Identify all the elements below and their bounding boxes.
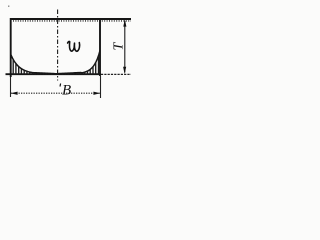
T dimension line [124, 21, 126, 73]
bottom extension to T dimension (dashed) [101, 73, 131, 75]
right extension line (B dim) [100, 76, 102, 98]
left wall [10, 18, 12, 77]
curved channel bed [11, 51, 100, 74]
scan speck top-left [8, 6, 9, 7]
bottom datum line [6, 73, 102, 75]
vertical centerline (dash-dot) [57, 10, 59, 81]
water surface tick row (dotted) [13, 20, 131, 22]
background [0, 0, 140, 110]
left extension line (B dim) [10, 77, 12, 97]
omega label (flow area) [68, 41, 80, 51]
B dimension right arrow [93, 92, 100, 95]
B dimension line (dotted) [11, 92, 100, 94]
right wall [99, 18, 101, 76]
stray prime mark left of B [59, 84, 62, 87]
T dimension top arrow [123, 19, 126, 26]
svg-text:T: T [112, 42, 127, 51]
water surface top line [10, 18, 131, 20]
svg-text:B: B [62, 83, 71, 99]
B dimension left arrow [11, 92, 18, 95]
hatching between bed curve and datum [13, 56, 98, 74]
T dimension bottom arrow [123, 67, 126, 74]
